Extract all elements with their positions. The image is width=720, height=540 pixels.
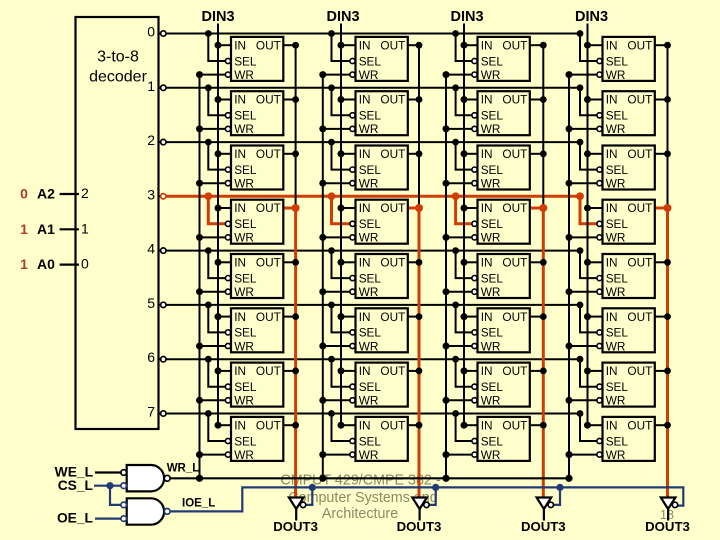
junction OUT bus col 1 row 2 bbox=[416, 150, 423, 157]
svg-text:SEL: SEL bbox=[606, 434, 629, 448]
wire: SEL stub row 7 col 3 bbox=[580, 414, 597, 442]
cell row 6 col 2 WR bubble bbox=[472, 398, 477, 403]
svg-text:IN: IN bbox=[234, 364, 246, 378]
wire: OUT stub row 1 col 1 bbox=[408, 99, 419, 101]
svg-text:SEL: SEL bbox=[234, 217, 257, 231]
svg-text:SEL: SEL bbox=[234, 434, 257, 448]
wire: OUT stub row 1 col 2 bbox=[530, 99, 544, 101]
svg-text:IN: IN bbox=[606, 93, 618, 107]
junction WR col 1 row 5 bbox=[319, 343, 326, 350]
junction OUT bus col 1 row 3 bbox=[415, 204, 423, 212]
memory cell row 7 col 3 bbox=[597, 417, 655, 462]
wire: WR stub row 0 col 1 bbox=[323, 74, 350, 76]
svg-text:1: 1 bbox=[20, 256, 28, 272]
junction WR_L col 2 bbox=[442, 475, 449, 482]
wire: OUT bus column 3 (inactive upper part) bbox=[667, 45, 669, 208]
junction row 7 col 3 select bbox=[577, 410, 584, 417]
cell row 4 col 3 WR bubble bbox=[597, 289, 602, 294]
decoder input A2 pin bbox=[60, 185, 89, 201]
junction WR_L col 0 bbox=[196, 475, 203, 482]
cell row 4 col 0 WR bubble bbox=[225, 289, 230, 294]
wire: OUT stub row 7 col 1 bbox=[408, 424, 419, 426]
wire: IN stub row 6 col 2 bbox=[464, 370, 478, 372]
wire: SEL stub row 6 col 1 bbox=[332, 359, 351, 387]
slide footer text bbox=[280, 472, 440, 522]
cell row 6 col 1 WR bubble bbox=[350, 398, 355, 403]
wire: SEL stub row 5 col 2 bbox=[456, 305, 473, 333]
junction WR col 0 row 4 bbox=[196, 288, 203, 295]
junction row 5 col 0 select bbox=[205, 302, 212, 309]
wire: SEL stub row 7 col 0 bbox=[208, 414, 225, 442]
wire: WR stub row 6 col 1 bbox=[323, 399, 350, 401]
wire: SEL stub row 2 col 3 bbox=[580, 142, 597, 170]
cell row 3 col 0 WR bubble bbox=[225, 235, 230, 240]
cell row 2 col 1 SEL bubble bbox=[350, 167, 355, 172]
wire: IN stub row 2 col 3 bbox=[588, 153, 603, 155]
wire: SEL stub row 2 col 0 bbox=[208, 142, 225, 170]
cell row 2 col 0 WR bubble bbox=[225, 181, 230, 186]
memory cell row 3 col 3 bbox=[597, 200, 655, 245]
junction row 0 col 2 select bbox=[452, 30, 459, 37]
cell row 1 col 0 SEL bubble bbox=[225, 113, 230, 118]
tri-state buffer column 0 bbox=[289, 498, 306, 521]
G1 output bubble bbox=[164, 475, 170, 481]
junction DIN col 1 row 0 bbox=[338, 42, 345, 49]
decoder output pin 5 bbox=[147, 295, 166, 311]
wire: OUT bus column 2 (inactive upper part) bbox=[542, 45, 544, 208]
junction row 7 col 1 select bbox=[328, 410, 335, 417]
wire: SEL stub row 4 col 2 bbox=[456, 251, 473, 279]
wire: WR stub row 1 col 3 bbox=[569, 128, 597, 130]
svg-text:SEL: SEL bbox=[234, 54, 257, 68]
svg-text:OUT: OUT bbox=[380, 364, 405, 378]
junction row 6 col 3 select bbox=[577, 356, 584, 363]
wire: IN stub row 4 col 0 bbox=[218, 261, 231, 263]
svg-text:IN: IN bbox=[606, 256, 618, 270]
svg-text:DOUT3: DOUT3 bbox=[397, 519, 442, 534]
wire: OUT stub row 3 col 3 bbox=[655, 207, 668, 210]
svg-text:WR: WR bbox=[234, 339, 254, 353]
junction OUT bus col 1 row 1 bbox=[416, 96, 423, 103]
wire: SEL stub row 0 col 3 bbox=[580, 34, 597, 62]
junction row 6 col 2 select bbox=[452, 356, 459, 363]
junction row 6 col 1 select bbox=[328, 356, 335, 363]
memory cell row 4 col 3 bbox=[597, 254, 655, 299]
junction WR col 3 row 4 bbox=[566, 288, 573, 295]
memory cell row 3 col 1 bbox=[350, 200, 408, 245]
junction WR col 3 row 0 bbox=[566, 71, 573, 78]
cell row 0 col 2 WR bubble bbox=[472, 72, 477, 77]
junction OUT bus col 1 row 7 bbox=[416, 422, 423, 429]
svg-text:CS_L: CS_L bbox=[58, 478, 93, 493]
junction row 5 col 2 select bbox=[452, 302, 459, 309]
nand gate G2 (CS_L,OE_L -> IOE_L) bbox=[121, 498, 170, 524]
junction WR col 1 row 3 bbox=[319, 234, 326, 241]
svg-text:OUT: OUT bbox=[627, 147, 652, 161]
wire: OUT stub row 5 col 2 bbox=[530, 316, 544, 318]
wire: SEL stub row 1 col 0 bbox=[208, 88, 225, 116]
memory cell row 2 col 1 bbox=[350, 146, 408, 191]
junction OUT bus col 1 row 4 bbox=[416, 259, 423, 266]
cell row 7 col 2 WR bubble bbox=[472, 452, 477, 457]
cell row 3 col 2 SEL bubble bbox=[472, 221, 477, 226]
junction row 0 col 3 select bbox=[577, 30, 584, 37]
svg-text:OUT: OUT bbox=[627, 364, 652, 378]
svg-text:1: 1 bbox=[81, 220, 89, 236]
memory cell row 7 col 0 bbox=[225, 417, 283, 462]
junction WR col 3 row 6 bbox=[566, 397, 573, 404]
wire: SEL stub row 5 col 1 bbox=[332, 305, 351, 333]
svg-text:2: 2 bbox=[147, 132, 155, 148]
junction row 2 col 0 select bbox=[205, 139, 212, 146]
junction DIN col 3 row 6 bbox=[584, 367, 591, 374]
svg-text:WR: WR bbox=[234, 68, 254, 82]
svg-text:3-to-8: 3-to-8 bbox=[97, 48, 139, 65]
cell row 3 col 1 SEL bubble bbox=[350, 221, 355, 226]
wire: IN stub row 5 col 0 bbox=[218, 316, 231, 318]
wire: OUT stub row 3 col 2 bbox=[530, 207, 544, 210]
wire: WR stub row 5 col 1 bbox=[323, 345, 350, 347]
svg-text:SEL: SEL bbox=[359, 163, 382, 177]
svg-text:DIN3: DIN3 bbox=[450, 9, 483, 25]
wire: WR stub row 4 col 0 bbox=[200, 291, 226, 293]
junction WR col 2 row 3 bbox=[443, 234, 450, 241]
junction row 1 col 3 select bbox=[577, 84, 584, 91]
svg-text:IOE_L: IOE_L bbox=[182, 497, 215, 509]
svg-text:OUT: OUT bbox=[256, 418, 281, 432]
junction IOE_L col 1 bbox=[432, 484, 439, 491]
wire: OUT stub row 2 col 0 bbox=[283, 153, 295, 155]
wire: IN stub row 3 col 1 bbox=[341, 207, 356, 209]
svg-text:IN: IN bbox=[481, 147, 493, 161]
wire: IOE_L drop col 1 bbox=[429, 487, 436, 505]
junction DIN col 0 row 3 bbox=[215, 205, 222, 212]
junction DIN col 1 row 1 bbox=[338, 96, 345, 103]
svg-text:WR: WR bbox=[359, 68, 379, 82]
svg-text:WR: WR bbox=[359, 285, 379, 299]
svg-text:WR: WR bbox=[234, 285, 254, 299]
svg-text:OUT: OUT bbox=[627, 38, 652, 52]
wire: DIN3 column 1 data input line bbox=[338, 24, 356, 429]
svg-text:DOUT3: DOUT3 bbox=[645, 519, 690, 534]
svg-text:OUT: OUT bbox=[502, 201, 527, 215]
svg-text:IN: IN bbox=[359, 256, 371, 270]
wire: OUT bus column 0 (inactive upper part) bbox=[295, 45, 297, 208]
wire: WR stub row 7 col 0 bbox=[200, 454, 226, 456]
junction WR col 1 row 4 bbox=[319, 288, 326, 295]
svg-text:0: 0 bbox=[147, 24, 155, 40]
wire: IN stub row 1 col 0 bbox=[218, 99, 231, 101]
svg-text:SEL: SEL bbox=[481, 434, 504, 448]
wire: IN stub row 6 col 0 bbox=[218, 370, 231, 372]
svg-text:WR: WR bbox=[606, 177, 626, 191]
junction OUT bus col 2 row 7 bbox=[540, 422, 547, 429]
junction OUT bus col 3 row 3 bbox=[664, 204, 672, 212]
cell row 4 col 2 SEL bubble bbox=[472, 276, 477, 281]
memory cell row 6 col 1 bbox=[350, 363, 408, 408]
cell row 3 col 1 WR bubble bbox=[350, 235, 355, 240]
cell row 1 col 0 WR bubble bbox=[225, 126, 230, 131]
cell row 1 col 2 SEL bubble bbox=[472, 113, 477, 118]
junction WR col 2 row 4 bbox=[443, 288, 450, 295]
wire: IN stub row 0 col 0 bbox=[218, 44, 231, 46]
junction row 2 col 2 select bbox=[452, 139, 459, 146]
wire: buffer col 0 output bbox=[295, 509, 297, 521]
cell row 7 col 1 SEL bubble bbox=[350, 438, 355, 443]
svg-text:OUT: OUT bbox=[502, 147, 527, 161]
svg-text:SEL: SEL bbox=[234, 163, 257, 177]
junction OUT bus col 3 row 7 bbox=[664, 422, 671, 429]
junction IOE_L col 0 bbox=[309, 484, 316, 491]
junction DIN col 1 row 5 bbox=[338, 313, 345, 320]
svg-text:SEL: SEL bbox=[359, 380, 382, 394]
wire: WR stub row 2 col 0 bbox=[200, 182, 226, 184]
wire: WR stub row 2 col 1 bbox=[323, 182, 350, 184]
wire: OUT stub row 7 col 0 bbox=[283, 424, 295, 426]
svg-text:WR: WR bbox=[481, 339, 501, 353]
wire: WR stub row 6 col 3 bbox=[569, 399, 597, 401]
wire: SEL stub row 2 col 2 bbox=[456, 142, 473, 170]
svg-text:WR: WR bbox=[359, 231, 379, 245]
junction WR col 1 row 2 bbox=[319, 180, 326, 187]
wire: buffer col 1 output bbox=[419, 509, 421, 521]
junction DIN col 2 row 6 bbox=[461, 367, 468, 374]
wire: OUT stub row 1 col 3 bbox=[655, 99, 668, 101]
junction WR col 1 row 1 bbox=[319, 125, 326, 132]
memory cell row 7 col 1 bbox=[350, 417, 408, 462]
svg-text:WR: WR bbox=[359, 339, 379, 353]
svg-text:OUT: OUT bbox=[380, 93, 405, 107]
svg-text:SEL: SEL bbox=[481, 109, 504, 123]
svg-text:WR: WR bbox=[606, 394, 626, 408]
wire: SEL stub row 1 col 3 bbox=[580, 88, 597, 116]
wire: OUT bus column 2 active (driven by selected row 3) bbox=[542, 208, 545, 499]
junction WR col 0 row 1 bbox=[196, 125, 203, 132]
svg-text:SEL: SEL bbox=[481, 380, 504, 394]
junction WR col 3 row 1 bbox=[566, 125, 573, 132]
wire: IN stub row 3 col 2 bbox=[464, 207, 478, 209]
svg-text:DOUT3: DOUT3 bbox=[521, 519, 566, 534]
cell row 2 col 1 WR bubble bbox=[350, 181, 355, 186]
svg-text:WR: WR bbox=[234, 231, 254, 245]
junction row 4 col 2 select bbox=[452, 247, 459, 254]
junction OUT bus col 2 row 5 bbox=[540, 313, 547, 320]
cell row 4 col 0 SEL bubble bbox=[225, 276, 230, 281]
cell row 3 col 2 WR bubble bbox=[472, 235, 477, 240]
cell row 1 col 3 SEL bubble bbox=[597, 113, 602, 118]
junction OUT bus col 2 row 1 bbox=[540, 96, 547, 103]
wire: IN stub row 1 col 3 bbox=[588, 99, 603, 101]
wire: IN stub row 6 col 1 bbox=[341, 370, 356, 372]
svg-text:0: 0 bbox=[81, 256, 89, 272]
wire: IN stub row 0 col 1 bbox=[341, 44, 356, 46]
svg-text:IN: IN bbox=[359, 310, 371, 324]
junction WR col 2 row 0 bbox=[443, 71, 450, 78]
svg-text:IN: IN bbox=[606, 310, 618, 324]
svg-text:SEL: SEL bbox=[606, 109, 629, 123]
svg-text:OUT: OUT bbox=[627, 93, 652, 107]
svg-text:OUT: OUT bbox=[502, 310, 527, 324]
junction DIN col 0 row 4 bbox=[215, 259, 222, 266]
wire: SEL stub row 3 col 3 bbox=[580, 196, 597, 224]
junction WR col 2 row 7 bbox=[443, 451, 450, 458]
svg-text:2: 2 bbox=[81, 185, 89, 201]
wire: WR column 1 write line bbox=[319, 71, 350, 478]
svg-text:WR: WR bbox=[481, 122, 501, 136]
wire: IN stub row 7 col 1 bbox=[341, 424, 356, 426]
svg-text:SEL: SEL bbox=[234, 380, 257, 394]
wire: row 2 word/select line bbox=[166, 139, 597, 170]
svg-text:IN: IN bbox=[481, 256, 493, 270]
svg-text:OUT: OUT bbox=[502, 38, 527, 52]
svg-text:IN: IN bbox=[359, 93, 371, 107]
wire: OUT stub row 0 col 2 bbox=[530, 44, 544, 46]
wire: WR stub row 4 col 3 bbox=[569, 291, 597, 293]
junction WR_L col 3 bbox=[565, 475, 572, 482]
cell row 5 col 2 SEL bubble bbox=[472, 330, 477, 335]
wire: OUT stub row 5 col 3 bbox=[655, 316, 668, 318]
wire: WR stub row 1 col 0 bbox=[200, 128, 226, 130]
buffer col 1 enable bubble bbox=[424, 502, 429, 507]
nand gate G1 (WE_L,CS_L -> WR_L) bbox=[121, 465, 170, 491]
junction DIN col 3 row 2 bbox=[584, 150, 591, 157]
svg-text:DIN3: DIN3 bbox=[201, 9, 234, 25]
wire: IN stub row 3 col 0 bbox=[218, 207, 231, 209]
svg-text:CMPUT 429/CMPE 382 -: CMPUT 429/CMPE 382 - bbox=[280, 472, 440, 488]
cell row 7 col 3 SEL bubble bbox=[597, 438, 602, 443]
svg-text:SEL: SEL bbox=[234, 326, 257, 340]
wire: SEL stub row 4 col 3 bbox=[580, 251, 597, 279]
junction WR col 2 row 6 bbox=[443, 397, 450, 404]
svg-text:WR: WR bbox=[481, 394, 501, 408]
svg-text:IN: IN bbox=[234, 256, 246, 270]
svg-text:WR: WR bbox=[606, 68, 626, 82]
wire: row 0 word/select line bbox=[166, 30, 597, 61]
memory cell row 5 col 1 bbox=[350, 308, 408, 353]
wire: CS_L bbox=[94, 482, 121, 505]
memory cell row 1 col 0 bbox=[225, 91, 283, 136]
cell row 0 col 3 SEL bubble bbox=[597, 58, 602, 63]
wire: SEL stub row 0 col 2 bbox=[456, 34, 473, 62]
wire: WR column 3 write line bbox=[566, 71, 598, 478]
cell row 7 col 2 SEL bubble bbox=[472, 438, 477, 443]
svg-text:OUT: OUT bbox=[627, 201, 652, 215]
svg-text:SEL: SEL bbox=[606, 163, 629, 177]
junction DIN col 3 row 7 bbox=[584, 422, 591, 429]
svg-text:WR: WR bbox=[606, 285, 626, 299]
tri-state buffer column 1 bbox=[412, 498, 429, 521]
cell row 0 col 2 SEL bubble bbox=[472, 58, 477, 63]
svg-text:IN: IN bbox=[481, 38, 493, 52]
junction DIN col 3 row 5 bbox=[584, 313, 591, 320]
wire: IN stub row 0 col 3 bbox=[588, 44, 603, 46]
junction DIN col 2 row 7 bbox=[461, 422, 468, 429]
cell row 6 col 0 WR bubble bbox=[225, 398, 230, 403]
wire: OUT stub row 2 col 3 bbox=[655, 153, 668, 155]
memory cell row 0 col 3 bbox=[597, 37, 655, 82]
wire: OUT stub row 6 col 0 bbox=[283, 370, 295, 372]
svg-text:OUT: OUT bbox=[502, 93, 527, 107]
junction DIN col 1 row 7 bbox=[338, 422, 345, 429]
wire: SEL stub row 6 col 2 bbox=[456, 359, 473, 387]
svg-text:WR: WR bbox=[481, 177, 501, 191]
wire: buffer col 3 output bbox=[667, 509, 669, 521]
svg-text:IN: IN bbox=[234, 201, 246, 215]
cell row 6 col 2 SEL bubble bbox=[472, 384, 477, 389]
junction DIN col 3 row 1 bbox=[584, 96, 591, 103]
wire: OUT stub row 6 col 1 bbox=[408, 370, 419, 372]
memory cell row 4 col 0 bbox=[225, 254, 283, 299]
wire: IN stub row 1 col 2 bbox=[464, 99, 478, 101]
svg-text:OE_L: OE_L bbox=[57, 510, 93, 525]
cell row 2 col 2 SEL bubble bbox=[472, 167, 477, 172]
junction row 7 col 2 select bbox=[452, 410, 459, 417]
wire: WR stub row 7 col 3 bbox=[569, 454, 597, 456]
decoder output pin 7 bbox=[147, 404, 166, 420]
svg-text:OUT: OUT bbox=[256, 93, 281, 107]
wire: WR stub row 5 col 2 bbox=[446, 345, 472, 347]
junction WR col 1 row 0 bbox=[319, 71, 326, 78]
junction OUT bus col 0 row 4 bbox=[292, 259, 299, 266]
wire: SEL stub row 3 col 0 bbox=[208, 196, 225, 224]
decoder output pin 2 bbox=[147, 132, 166, 148]
wire: SEL stub row 7 col 2 bbox=[456, 414, 473, 442]
memory cell row 3 col 0 bbox=[225, 200, 283, 245]
svg-text:5: 5 bbox=[147, 295, 155, 311]
decoder output pin 3 bbox=[147, 186, 166, 202]
svg-text:WR: WR bbox=[234, 177, 254, 191]
memory cell row 5 col 2 bbox=[472, 308, 530, 353]
wire: WR column 2 write line bbox=[443, 71, 473, 478]
svg-text:SEL: SEL bbox=[481, 163, 504, 177]
svg-text:7: 7 bbox=[147, 404, 155, 420]
junction row 1 col 2 select bbox=[452, 84, 459, 91]
cell row 5 col 1 WR bubble bbox=[350, 343, 355, 348]
memory cell row 1 col 1 bbox=[350, 91, 408, 136]
wire: OUT stub row 0 col 0 bbox=[283, 44, 295, 46]
svg-text:SEL: SEL bbox=[481, 54, 504, 68]
cell row 2 col 2 WR bubble bbox=[472, 181, 477, 186]
cell row 7 col 0 SEL bubble bbox=[225, 438, 230, 443]
wire: IN stub row 7 col 0 bbox=[218, 424, 231, 426]
buffer col 0 enable bubble bbox=[300, 502, 305, 507]
junction OUT bus col 0 row 1 bbox=[292, 96, 299, 103]
cell row 5 col 1 SEL bubble bbox=[350, 330, 355, 335]
svg-text:WR: WR bbox=[606, 448, 626, 462]
wire: WR stub row 1 col 2 bbox=[446, 128, 472, 130]
memory cell row 6 col 2 bbox=[472, 363, 530, 408]
svg-text:SEL: SEL bbox=[359, 109, 382, 123]
junction DIN col 0 row 2 bbox=[215, 150, 222, 157]
wire: IN stub row 5 col 3 bbox=[588, 316, 603, 318]
wire: DIN3 column 0 data input line bbox=[215, 24, 232, 429]
decoder output pin 0 bbox=[147, 24, 166, 40]
wire: IN stub row 6 col 3 bbox=[588, 370, 603, 372]
junction DIN col 2 row 2 bbox=[461, 150, 468, 157]
junction row 0 col 0 select bbox=[205, 30, 212, 37]
memory cell row 3 col 2 bbox=[472, 200, 530, 245]
wire: row 4 word/select line bbox=[166, 247, 597, 278]
junction WR col 3 row 5 bbox=[566, 343, 573, 350]
junction OUT bus col 3 row 5 bbox=[664, 313, 671, 320]
svg-text:IN: IN bbox=[359, 201, 371, 215]
junction row 1 col 1 select bbox=[328, 84, 335, 91]
svg-text:DOUT3: DOUT3 bbox=[273, 519, 318, 534]
svg-text:OUT: OUT bbox=[502, 256, 527, 270]
svg-text:4: 4 bbox=[147, 241, 155, 257]
junction OUT bus col 1 row 0 bbox=[416, 42, 423, 49]
cell row 0 col 0 WR bubble bbox=[225, 72, 230, 77]
